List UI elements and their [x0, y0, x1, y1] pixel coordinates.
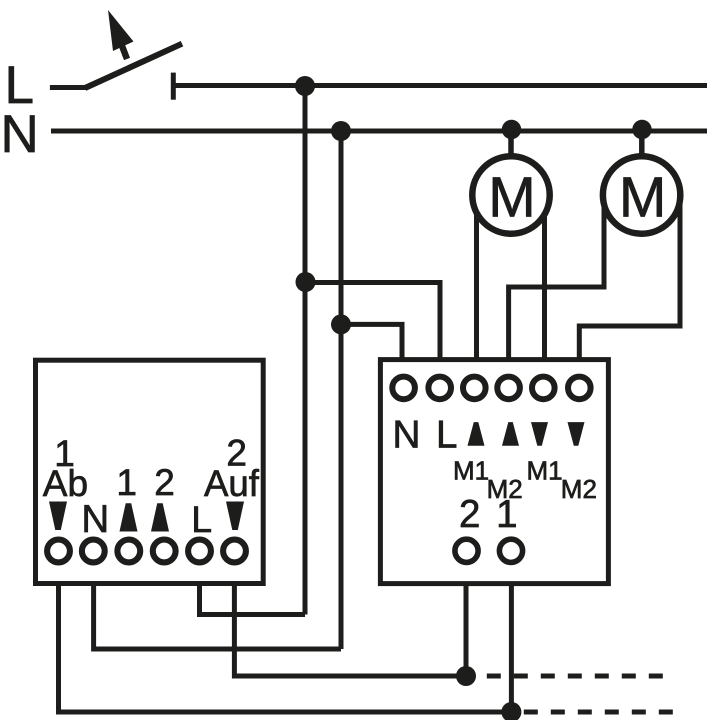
svg-text:1: 1	[116, 462, 137, 503]
node junction N jog	[331, 314, 351, 334]
svg-text:2: 2	[459, 493, 480, 536]
left unit terminal 5	[188, 540, 211, 563]
right unit terminal M2 up	[497, 377, 520, 400]
right unit triangle up M1	[468, 422, 485, 446]
svg-text:M: M	[619, 166, 666, 230]
wire left unit Ab terminal to node 1	[59, 580, 512, 712]
wire left unit L terminal	[200, 580, 306, 615]
right unit terminal M1 down	[532, 377, 555, 400]
left unit terminal 1	[47, 540, 70, 563]
motor M1 top stub	[508, 131, 514, 197]
svg-text:2: 2	[154, 462, 175, 503]
svg-text:Auf: Auf	[204, 463, 260, 504]
left unit triangle up 2	[151, 503, 169, 531]
switch S contact bar	[171, 73, 176, 100]
left unit terminal 4	[153, 540, 176, 563]
svg-text:L: L	[191, 498, 212, 540]
right unit triangle up M2	[502, 422, 519, 446]
motor M1	[472, 156, 549, 233]
switch S blade	[85, 44, 182, 88]
node junction group line 1	[501, 702, 521, 720]
node junction N drop	[331, 121, 351, 141]
wire L line	[173, 83, 707, 88]
left unit terminal 2	[82, 540, 105, 563]
left unit terminal 3	[117, 540, 140, 563]
right unit terminal M1 up	[463, 377, 486, 400]
manual actuation arrow	[108, 10, 134, 59]
svg-text:1: 1	[496, 493, 517, 536]
svg-text:M: M	[488, 166, 535, 230]
motor M1 wire up-winding	[474, 197, 479, 362]
motor M2 wire down-winding	[579, 197, 680, 362]
svg-text:L: L	[436, 414, 457, 457]
right unit triangle down M2	[568, 422, 585, 446]
right unit (motor control insert) box	[380, 360, 608, 584]
svg-text:M1: M1	[527, 456, 563, 486]
svg-text:M2: M2	[561, 474, 597, 504]
left unit (wall switch insert) box	[36, 360, 264, 583]
wire N line	[51, 129, 707, 134]
left unit triangle down Ab	[49, 502, 67, 531]
node junction N to M2	[632, 120, 651, 139]
svg-text:N: N	[392, 414, 420, 457]
wire L jog to right unit	[305, 283, 440, 363]
node junction L drop	[295, 76, 315, 96]
motor M1 wire down-winding	[542, 197, 547, 362]
right unit terminal L	[428, 377, 451, 400]
wire N drop vertical	[339, 131, 344, 649]
right unit terminal N	[392, 377, 415, 400]
wire left unit N terminal	[94, 580, 341, 649]
dashed group-control line 1	[524, 710, 673, 715]
svg-text:N: N	[81, 498, 109, 541]
switch S feed stub	[50, 85, 87, 90]
node junction N to M1	[502, 120, 521, 139]
wire left unit Auf terminal to node 2	[234, 580, 466, 676]
right unit output terminal 1	[499, 539, 522, 562]
dashed group-control line 2	[487, 674, 663, 679]
left unit triangle down Auf	[226, 502, 244, 531]
motor M2 wire up-winding	[509, 197, 604, 362]
node junction L jog	[296, 272, 316, 292]
left unit triangle up 1	[120, 503, 138, 531]
wire right unit terminal 2 drop	[464, 580, 469, 676]
wire right unit terminal 1 drop	[509, 580, 514, 712]
right unit output terminal 2	[455, 539, 478, 562]
motor M2	[603, 156, 680, 233]
wire L drop vertical	[303, 86, 308, 615]
right unit terminal M2 down	[568, 377, 591, 400]
svg-text:N: N	[1, 105, 39, 164]
motor M2 top stub	[639, 131, 645, 197]
svg-text:M1: M1	[453, 456, 489, 486]
wire N jog to right unit	[341, 324, 402, 362]
node junction group line 2	[456, 666, 476, 686]
left unit terminal 6	[223, 540, 246, 563]
right unit triangle down M1	[531, 422, 548, 446]
